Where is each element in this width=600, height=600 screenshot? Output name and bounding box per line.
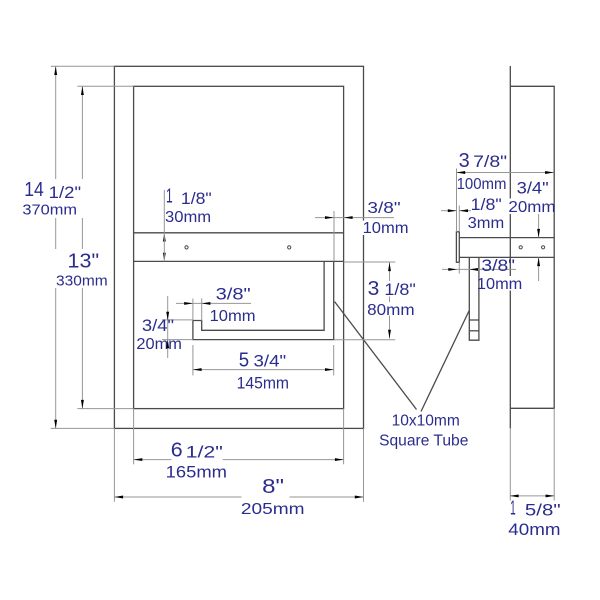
towel bar J-tube front view xyxy=(193,261,334,339)
svg-text:3mm: 3mm xyxy=(468,215,505,232)
dim 1/8in line right xyxy=(459,210,471,212)
dim side 3/4in line upper xyxy=(538,214,540,238)
dim side 3/4in line lower xyxy=(538,257,540,281)
dim 1 1/8in arrow down xyxy=(163,253,166,262)
dim 3/4in hook arrow down xyxy=(166,312,169,321)
dim 3/8in top right arrow xyxy=(344,216,353,219)
text 3/8in 10mm top label xyxy=(363,200,410,237)
svg-text:330mm: 330mm xyxy=(56,273,108,290)
svg-text:1/2": 1/2" xyxy=(186,443,223,461)
dim 1 5/8in line xyxy=(510,495,554,497)
dim 6.5in left arrow xyxy=(134,458,143,461)
svg-text:3/8": 3/8" xyxy=(216,284,251,303)
leader line from side tube xyxy=(421,311,469,412)
text 3 7/8in 100mm label xyxy=(457,150,508,193)
dim 3 1/8in extension from tube bottom xyxy=(334,339,396,341)
dim side 3/8in extension below plate xyxy=(458,262,460,273)
svg-text:145mm: 145mm xyxy=(237,373,289,392)
dim 14.5in extension bottom xyxy=(51,427,115,429)
dim 1/8in arrow right-pointing xyxy=(448,209,457,212)
dim 3 1/8in extension from shelf bottom xyxy=(344,261,396,263)
dim side 3/8in arrow right-pointing xyxy=(448,268,457,271)
text side 3/8in 10mm label xyxy=(477,256,523,293)
dim 3/4in hook line xyxy=(167,296,169,358)
dim 6.5in line left segment xyxy=(134,459,172,461)
dim 13in line xyxy=(81,86,83,408)
dim 5 3/4in extensions xyxy=(192,345,194,375)
svg-text:14: 14 xyxy=(24,179,44,201)
side view hanging tube xyxy=(469,257,479,340)
text 8in 205mm label xyxy=(241,476,305,518)
dim 3 1/8in arrow up xyxy=(388,262,391,271)
dim 13in extension bottom xyxy=(77,408,133,410)
text slot 3/8in 10mm label xyxy=(210,284,256,325)
svg-text:1/8": 1/8" xyxy=(384,281,416,299)
dim side 3/8in arrow left-pointing xyxy=(469,268,478,271)
svg-text:1: 1 xyxy=(166,186,173,208)
dim 8in line left segment xyxy=(114,496,241,498)
text 1 1/8in label xyxy=(165,186,212,226)
svg-text:3/8": 3/8" xyxy=(481,256,515,275)
dim 5 3/4in line xyxy=(193,369,334,371)
svg-text:1: 1 xyxy=(510,498,516,520)
dim 14.5in line xyxy=(55,66,57,428)
dim 1 1/8in line between arrows xyxy=(163,233,165,262)
svg-text:8": 8" xyxy=(262,476,284,498)
side view screw hole right xyxy=(542,246,545,249)
dim 1 5/8in right arrow xyxy=(546,494,555,497)
dim slot 3/8in right arrow xyxy=(202,302,211,305)
dim slot 3/8in line xyxy=(176,302,251,304)
front view outer frame xyxy=(114,66,363,428)
dim 1 5/8in left arrow xyxy=(510,494,519,497)
svg-text:3/4": 3/4" xyxy=(142,317,174,335)
dim 1/8in line left xyxy=(441,210,457,212)
svg-text:1/2": 1/2" xyxy=(49,184,82,202)
svg-text:3: 3 xyxy=(368,278,380,300)
dim 1 1/8in leader line above shelf xyxy=(163,190,165,233)
dim 3/8in top line xyxy=(315,217,394,219)
svg-text:10mm: 10mm xyxy=(363,220,409,237)
svg-text:20mm: 20mm xyxy=(508,199,555,216)
text 13in label xyxy=(54,249,110,290)
dim 3 7/8in extension xyxy=(456,169,458,232)
svg-text:40mm: 40mm xyxy=(508,520,560,539)
side view tube mounting plate xyxy=(456,232,459,262)
dim 1 1/8in arrow up xyxy=(163,233,166,242)
svg-text:13": 13" xyxy=(68,250,100,272)
svg-text:3/4": 3/4" xyxy=(517,179,549,198)
dim 14.5in extension top xyxy=(51,65,115,67)
svg-text:5: 5 xyxy=(239,349,249,371)
text 3/4in 20mm label xyxy=(136,317,182,353)
dim 3 1/8in arrow down xyxy=(388,330,391,339)
dim 3/8in top left arrow xyxy=(325,216,334,219)
svg-text:5/8": 5/8" xyxy=(525,502,561,520)
text 5 3/4in 145mm label xyxy=(237,349,289,392)
shelf bottom edge xyxy=(134,260,344,262)
text 10x10mm Square Tube note xyxy=(379,412,468,449)
dim side 3/8in line xyxy=(442,268,516,270)
svg-text:3/4": 3/4" xyxy=(254,352,287,370)
dim 13in arrow down xyxy=(81,400,84,409)
text 6 1/2in 165mm label xyxy=(166,439,227,481)
dim 1 5/8in extensions xyxy=(509,428,511,500)
dim 6.5in extensions xyxy=(133,409,135,465)
text 3 1/8in 80mm label xyxy=(367,278,416,319)
dim 5 3/4in right arrow xyxy=(325,368,334,371)
svg-text:Square Tube: Square Tube xyxy=(379,433,468,450)
dim side 3/4in arrow up xyxy=(537,257,540,266)
svg-text:100mm: 100mm xyxy=(457,176,507,193)
svg-text:30mm: 30mm xyxy=(165,209,211,226)
svg-text:10mm: 10mm xyxy=(477,276,522,293)
svg-text:1/8": 1/8" xyxy=(471,196,502,214)
dim 3/4in hook extensions xyxy=(162,319,193,321)
text 14 1/2in label xyxy=(21,179,83,219)
svg-text:10mm: 10mm xyxy=(210,308,256,325)
text 1/8in 3mm label xyxy=(468,196,505,232)
svg-text:370mm: 370mm xyxy=(22,202,77,219)
dim 3/8in top extension from tube edge xyxy=(333,211,335,261)
dim 14.5in arrow up xyxy=(54,66,57,75)
screw hole left xyxy=(185,246,188,249)
dim 8in left arrow xyxy=(114,496,123,499)
dim 3 7/8in left arrow xyxy=(457,171,466,174)
dim 1/8in arrow left-pointing xyxy=(459,209,468,212)
svg-text:7/8": 7/8" xyxy=(473,153,507,171)
svg-text:80mm: 80mm xyxy=(367,302,415,319)
side view recessed box xyxy=(510,86,554,408)
side view tube joint line upper xyxy=(469,319,479,321)
svg-text:6: 6 xyxy=(171,439,183,461)
side view shelf top edge xyxy=(459,237,554,239)
svg-text:20mm: 20mm xyxy=(136,336,182,353)
svg-text:205mm: 205mm xyxy=(241,501,305,518)
dim 14.5in arrow down xyxy=(54,420,57,429)
text 1 5/8in 40mm label xyxy=(508,498,560,540)
dim 5 3/4in left arrow xyxy=(193,368,202,371)
svg-text:3: 3 xyxy=(459,150,470,172)
dim 6.5in right arrow xyxy=(335,458,344,461)
side view shelf bottom edge xyxy=(459,256,554,258)
svg-text:3/8": 3/8" xyxy=(367,200,400,217)
front view inner opening xyxy=(134,86,344,408)
dim 8in line right segment xyxy=(290,496,364,498)
side view screw hole left xyxy=(519,246,522,249)
leader line from front tube xyxy=(335,302,417,410)
side view tube joint line lower xyxy=(469,330,479,332)
dim 13in extension top xyxy=(77,85,133,87)
dim slot 3/8in extensions xyxy=(192,299,194,321)
svg-text:165mm: 165mm xyxy=(166,462,227,481)
text side 3/4in 20mm label xyxy=(508,179,555,217)
dim 13in arrow up xyxy=(81,86,84,95)
svg-text:10x10mm: 10x10mm xyxy=(392,412,460,429)
dim 6.5in line right segment xyxy=(223,459,344,461)
svg-text:1/8": 1/8" xyxy=(181,190,212,208)
dim side 3/4in arrow down xyxy=(537,229,540,238)
side view wall face line xyxy=(509,66,511,428)
dim 1/8in extensions above plate xyxy=(456,206,458,232)
dim 3 7/8in right arrow xyxy=(545,171,554,174)
dim 3 7/8in line xyxy=(457,172,554,174)
screw hole right xyxy=(288,246,291,249)
dim 3 1/8in line segments xyxy=(389,262,391,281)
dim 8in extensions xyxy=(113,428,115,501)
shelf top edge xyxy=(134,232,344,234)
dim 8in right arrow xyxy=(355,496,364,499)
dim 3/4in hook arrow up xyxy=(166,340,169,349)
dim slot 3/8in left arrow xyxy=(184,302,193,305)
